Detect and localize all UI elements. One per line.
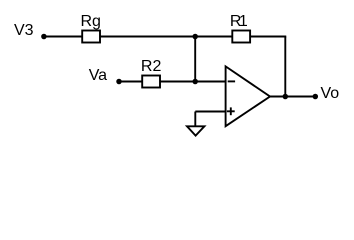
node output junction dot bbox=[283, 94, 289, 100]
wire op-amp noninverting input bbox=[195, 111, 225, 113]
op-amp U1 bbox=[226, 66, 270, 126]
node Vo terminal dot bbox=[313, 94, 319, 100]
node B junction dot bbox=[192, 79, 198, 85]
node A junction dot bbox=[192, 34, 198, 40]
wire R2 to node B bbox=[160, 81, 195, 83]
wire feedback vertical bbox=[284, 37, 286, 97]
node V3 terminal dot bbox=[41, 34, 47, 40]
wire op-amp output to Vo bbox=[270, 96, 315, 98]
wire node A down to node B bbox=[194, 37, 196, 82]
wire node B to op-amp inverting input bbox=[195, 81, 225, 83]
wire node A to R1 bbox=[195, 36, 232, 38]
wire Va to R2 bbox=[119, 81, 142, 83]
op-amp minus sign bbox=[228, 80, 235, 82]
svg-text:1: 1 bbox=[239, 13, 248, 30]
wire Rg to node A bbox=[100, 36, 195, 38]
svg-text:Rg: Rg bbox=[81, 13, 101, 30]
svg-text:R2: R2 bbox=[141, 58, 162, 75]
svg-text:Va: Va bbox=[89, 67, 107, 84]
wire V3 to Rg bbox=[44, 36, 82, 38]
resistor R1 bbox=[232, 31, 250, 43]
svg-text:V3: V3 bbox=[14, 22, 34, 39]
wire noninverting input down to ground bbox=[194, 112, 196, 127]
wire R1 to feedback corner bbox=[250, 36, 286, 38]
svg-text:Vo: Vo bbox=[321, 85, 340, 102]
resistor R2 bbox=[142, 76, 160, 88]
op-amp plus sign bbox=[227, 110, 235, 112]
node Va terminal dot bbox=[116, 79, 122, 85]
ground bbox=[187, 126, 204, 135]
resistor Rg bbox=[82, 31, 100, 43]
